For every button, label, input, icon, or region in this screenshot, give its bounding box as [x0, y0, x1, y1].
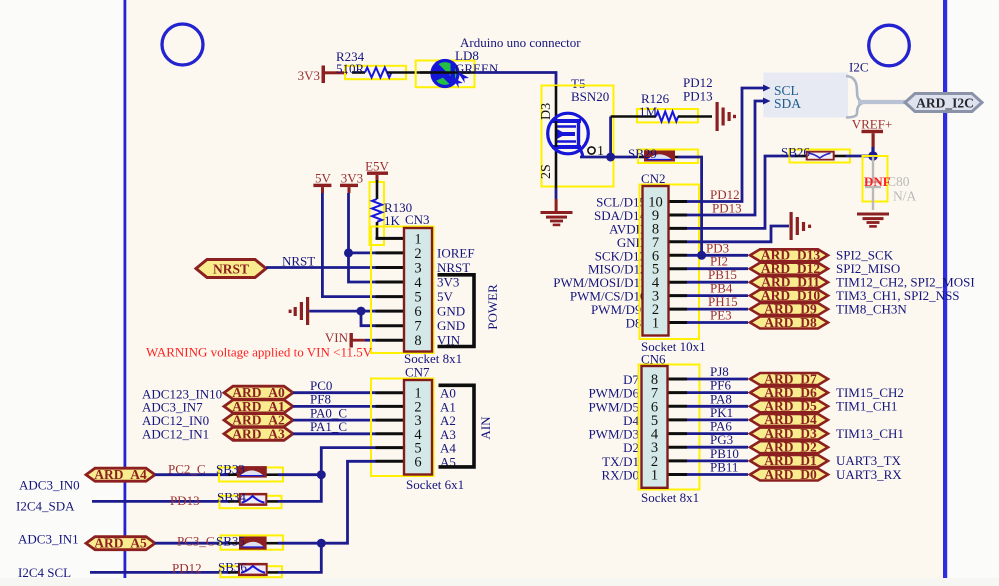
node gate junction	[606, 153, 615, 162]
power flag 5V	[313, 171, 331, 194]
svg-text:AIN: AIN	[478, 416, 493, 440]
svg-text:SB33: SB33	[216, 462, 245, 477]
svg-text:I2C: I2C	[849, 60, 869, 75]
LED LD8 GREEN	[416, 48, 499, 88]
power flag VIN	[325, 330, 376, 348]
wire A3 to pin4	[293, 432, 376, 435]
svg-text:CN7: CN7	[405, 365, 430, 380]
svg-text:6: 6	[414, 454, 421, 470]
ground under C80	[857, 213, 889, 228]
svg-text:ADC3_IN0: ADC3_IN0	[19, 478, 80, 493]
sheet border right	[943, 0, 947, 578]
svg-text:4: 4	[414, 275, 422, 291]
resistor R130 1K	[370, 180, 413, 245]
wire GND junction down to pin7	[361, 311, 376, 326]
svg-text:NRST: NRST	[213, 262, 249, 277]
svg-text:5V: 5V	[437, 289, 454, 304]
svg-text:6: 6	[414, 304, 421, 320]
svg-text:Socket 6x1: Socket 6x1	[406, 477, 464, 492]
wire ARD A4 to SB33	[155, 473, 230, 476]
white margin left of sheet	[0, 0, 124, 578]
svg-text:PC2_C: PC2_C	[168, 462, 206, 477]
tag ARD D6	[750, 385, 828, 400]
wire SB34 to A4 node	[278, 475, 321, 502]
power flag E5V	[365, 159, 389, 181]
connector CN3 Socket 8x1	[371, 212, 475, 366]
svg-text:3V3: 3V3	[298, 68, 320, 83]
svg-text:E5V: E5V	[365, 159, 389, 174]
wire pin1 to ARD D0	[687, 473, 748, 476]
ground right of CN2 (rotated)	[790, 212, 812, 240]
tag ARD D12	[750, 261, 828, 276]
svg-text:TIM8_CH3N: TIM8_CH3N	[836, 301, 907, 316]
power flag 3V3 (left of R234)	[298, 66, 347, 84]
wire A2 to pin3	[293, 419, 376, 422]
svg-text:SDA: SDA	[774, 96, 801, 111]
wire A4 node to CN7 pin5	[321, 448, 375, 475]
wire A1 to pin2	[293, 405, 376, 408]
power flag 3V3 (CN3)	[340, 171, 363, 194]
svg-text:NRST: NRST	[282, 254, 315, 269]
svg-text:WARNING voltage applied to VIN: WARNING voltage applied to VIN <11.5V	[146, 345, 373, 360]
connector CN2 Socket 10x1	[553, 171, 705, 354]
tag NRST	[196, 260, 266, 278]
wire pin2 to ARD D9	[687, 308, 748, 311]
wire pin2 to ARD D1	[687, 459, 748, 462]
solder bridge SB29	[628, 146, 698, 163]
wire SB35 to A5 node	[278, 542, 321, 545]
wire SB33 to A4 node	[278, 473, 321, 476]
tag ARD D7	[750, 371, 828, 386]
svg-text:CN3: CN3	[405, 212, 430, 227]
svg-text:510R: 510R	[336, 61, 365, 76]
svg-text:POWER: POWER	[485, 284, 500, 330]
wire junction to SB29	[611, 156, 640, 159]
wire pin9 to SDA (PD13)	[687, 101, 763, 215]
harness bus ripper	[846, 76, 864, 118]
resistor R126 1M	[611, 91, 712, 122]
bus wire to ARD I2C	[858, 100, 908, 104]
svg-text:ARD_I2C: ARD_I2C	[916, 96, 974, 111]
wire pin7 GND to ground	[687, 226, 789, 242]
node GND junction	[357, 307, 366, 316]
wire pin6 to ARD D13	[687, 254, 748, 257]
svg-text:I2C4_SDA: I2C4_SDA	[16, 499, 75, 514]
harness I2C box	[763, 60, 869, 118]
svg-text:ARD_A3: ARD_A3	[232, 426, 285, 441]
svg-text:1M: 1M	[639, 104, 658, 119]
sheet marker circle left	[162, 24, 203, 65]
wire pin7 to ARD D6	[687, 391, 748, 394]
svg-text:3V3: 3V3	[437, 275, 459, 290]
tag ARD A0	[224, 385, 293, 400]
svg-text:SB26: SB26	[781, 145, 810, 160]
power flag VREF+	[852, 117, 893, 157]
svg-text:2S: 2S	[539, 164, 554, 179]
svg-text:SB34: SB34	[217, 490, 246, 505]
svg-text:NRST: NRST	[437, 260, 470, 275]
node IOREF-3V3 junction	[344, 248, 353, 257]
svg-text:3V3: 3V3	[341, 171, 363, 186]
tag ARD D11	[750, 275, 828, 290]
tag ARD A1	[224, 399, 293, 414]
sheet border left	[124, 0, 127, 578]
svg-text:ADC12_IN1: ADC12_IN1	[142, 427, 209, 442]
solder bridge SB33	[216, 462, 283, 482]
svg-text:VIN: VIN	[325, 330, 349, 345]
svg-text:TIM1_CH1: TIM1_CH1	[836, 399, 897, 414]
svg-text:PC3_C: PC3_C	[177, 533, 215, 548]
svg-text:PD12: PD12	[172, 561, 202, 576]
svg-text:ARD_A4: ARD_A4	[94, 467, 147, 482]
svg-text:N/A: N/A	[893, 189, 917, 204]
svg-text:D3: D3	[539, 103, 554, 120]
wire pin4 to ARD D11	[687, 281, 748, 284]
tag ARD A3	[224, 426, 293, 441]
svg-text:2: 2	[414, 246, 421, 262]
wire pin5 to ARD D12	[687, 267, 748, 270]
svg-text:I2C4 SCL: I2C4 SCL	[18, 565, 71, 580]
POWER group bracket	[438, 275, 475, 347]
wire T5 gate to junction	[580, 156, 611, 159]
wire 5V down to pin5	[322, 193, 375, 297]
node A4 junction	[317, 470, 326, 479]
node D13 junction	[697, 251, 706, 260]
tag ARD D0	[750, 467, 828, 482]
wire pin8 to ARD D7	[687, 378, 748, 381]
solder bridge SB34	[217, 490, 282, 509]
connector CN7 Socket 6x1	[371, 365, 464, 493]
tag ARD A5	[86, 536, 155, 551]
ground right of R126 (rotated)	[716, 102, 737, 131]
wire SB36 to A5 node	[278, 543, 321, 572]
wire pin8 AVDD up to SB26	[687, 156, 795, 228]
svg-text:GND: GND	[437, 304, 465, 319]
svg-text:Socket 8x1: Socket 8x1	[641, 490, 699, 505]
AIN group bracket	[439, 385, 475, 467]
tag ARD D3	[750, 426, 828, 441]
tag ARD A4	[86, 467, 155, 482]
svg-text:1: 1	[651, 468, 658, 484]
tag ARD I2C	[905, 94, 982, 112]
wire pin3 to ARD D10	[687, 294, 748, 297]
wire junction up to R126	[609, 117, 612, 158]
wire pin10 to SCL (PD12)	[687, 88, 763, 202]
sheet marker circle right	[869, 25, 910, 66]
svg-text:DNF: DNF	[864, 174, 891, 189]
svg-text:GND: GND	[437, 318, 465, 333]
transistor T5 BSN20	[539, 76, 614, 188]
wire LED to T5 drain	[475, 73, 556, 88]
wire I2C4_SDA to SB34	[92, 500, 230, 503]
wire junction to pin2	[349, 251, 376, 254]
tag ARD A2	[224, 413, 293, 428]
svg-text:RX/D0: RX/D0	[601, 468, 639, 483]
svg-text:BSN20: BSN20	[571, 89, 609, 104]
solder bridge SB35	[216, 534, 283, 550]
ground left of CN3 (rotated)	[289, 297, 361, 325]
svg-text:ADC3_IN1: ADC3_IN1	[18, 532, 79, 547]
svg-text:SB36: SB36	[218, 560, 247, 575]
wire pin6 to ARD D5	[687, 405, 748, 408]
svg-text:8: 8	[414, 333, 421, 349]
svg-text:UART3_RX: UART3_RX	[836, 467, 902, 482]
wire GND junction to pin6	[361, 310, 376, 313]
node VREF junction	[868, 151, 878, 161]
svg-text:PB11: PB11	[710, 460, 738, 475]
svg-text:PE3: PE3	[710, 308, 732, 323]
svg-text:IOREF: IOREF	[437, 245, 475, 260]
svg-text:ARD_D8: ARD_D8	[764, 315, 817, 330]
connector CN6 Socket 8x1	[588, 352, 699, 506]
tag ARD D4	[750, 412, 828, 427]
svg-text:PD13: PD13	[683, 89, 713, 104]
wire NRST to pin3	[266, 266, 376, 269]
resistor R234 510R	[336, 49, 418, 79]
svg-text:5V: 5V	[315, 171, 332, 186]
svg-text:ARD_A5: ARD_A5	[94, 536, 147, 551]
capacitor C80 DNF N/A	[863, 156, 917, 210]
tag ARD D2	[750, 440, 828, 455]
svg-text:PD13: PD13	[170, 493, 200, 508]
svg-text:1: 1	[652, 316, 659, 332]
tag ARD D5	[750, 399, 828, 414]
wire pin1 to ARD D8	[687, 321, 748, 324]
svg-text:SB29: SB29	[628, 146, 657, 161]
tag ARD D8	[750, 315, 828, 330]
svg-text:PD13: PD13	[712, 201, 742, 216]
wire pin3 to ARD D2	[687, 446, 748, 449]
wire pin4 to ARD D3	[687, 432, 748, 435]
svg-text:A3: A3	[440, 427, 456, 442]
bottom page strip	[0, 578, 999, 586]
wire A0 to pin1	[293, 391, 376, 394]
wire I2C4_SCL to SB36	[90, 571, 230, 574]
solder bridge SB36	[218, 560, 282, 578]
wire ARD A5 to SB35	[155, 542, 230, 545]
tag ARD D1	[750, 453, 828, 468]
wire SB29 to D13 node	[678, 157, 702, 255]
tag ARD D13	[750, 248, 828, 263]
node A5 junction	[317, 539, 326, 548]
svg-text:PA1_C: PA1_C	[310, 419, 347, 434]
svg-text:SB35: SB35	[216, 534, 245, 549]
tag ARD D9	[750, 301, 828, 316]
white margin right of sheet	[947, 0, 999, 578]
tag ARD D10	[750, 288, 828, 303]
wire A5 node to CN7 pin6	[321, 461, 375, 543]
ground under T5	[541, 188, 573, 226]
solder bridge SB26	[781, 145, 873, 163]
svg-text:ARD_D0: ARD_D0	[764, 467, 817, 482]
wire pin5 to ARD D4	[687, 418, 748, 421]
svg-text:VREF+: VREF+	[852, 117, 893, 132]
wire 3V3 down to pin4	[349, 193, 376, 282]
svg-text:TIM13_CH1: TIM13_CH1	[836, 426, 904, 441]
